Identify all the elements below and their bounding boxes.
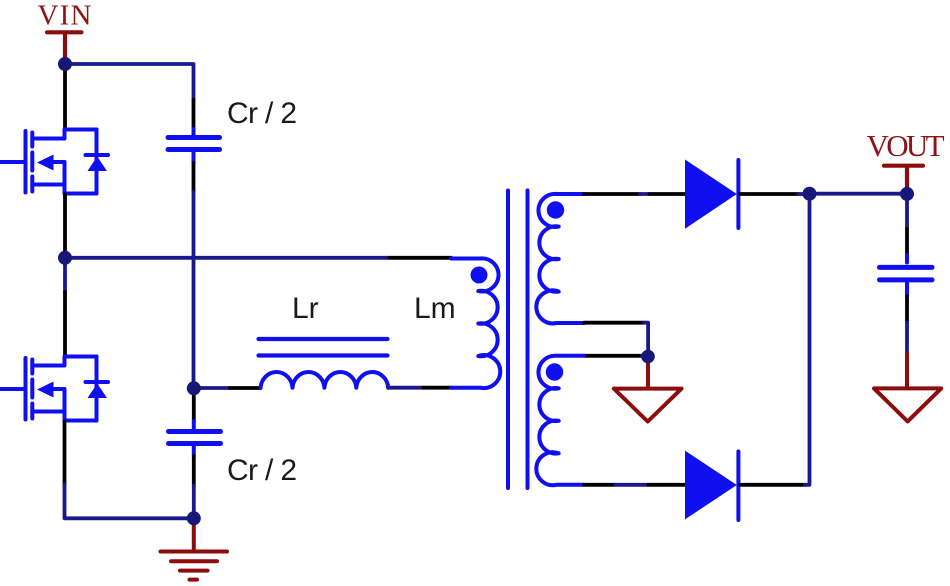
capacitor Cr1 (Cr/2 top) bbox=[168, 129, 220, 163]
ground center-tap stem bbox=[646, 360, 650, 388]
wire D2 cathode pin bbox=[740, 483, 805, 487]
wire D2 anode pin bbox=[648, 483, 685, 487]
transformer primary winding Lm bbox=[451, 258, 500, 388]
secondary bottom phase dot bbox=[546, 363, 563, 380]
wire D2 up to rectifier node bbox=[805, 194, 810, 485]
transformer secondary winding top bbox=[536, 194, 584, 323]
wire secondary bottom top pin bbox=[584, 354, 642, 358]
wire Q2 drain pin bbox=[63, 292, 67, 357]
node half-bridge midpoint bbox=[58, 251, 72, 265]
wire midpoint to primary bbox=[65, 256, 390, 260]
VOUT power rail bar bbox=[884, 164, 923, 168]
wire Cr1 to tank node bbox=[192, 192, 196, 388]
wire Cr2 to ground node bbox=[192, 486, 196, 519]
node VIN junction bbox=[58, 57, 72, 71]
transformer core lines bbox=[506, 191, 510, 489]
svg-text:VOUT: VOUT bbox=[867, 128, 945, 163]
wire Q2 source to ground node bbox=[65, 485, 194, 519]
transformer secondary winding bottom bbox=[536, 356, 584, 485]
secondary top phase dot bbox=[547, 201, 564, 218]
node rectifier junction bbox=[803, 187, 817, 201]
capacitor Cr2 (Cr/2 bottom) bbox=[169, 421, 221, 456]
VIN power rail bar bbox=[47, 30, 82, 34]
svg-text:Cr / 2: Cr / 2 bbox=[227, 97, 297, 130]
wire Cr2 top pin bbox=[192, 392, 196, 421]
wire secondary bottom pin to D2 bbox=[584, 483, 615, 487]
svg-text:Lr: Lr bbox=[292, 292, 319, 325]
ground center-tap triangle bbox=[614, 389, 682, 422]
wire Cr1 top pin bbox=[192, 100, 196, 129]
wire Q1 source pin bbox=[63, 195, 67, 253]
wire Cr1 bottom pin bbox=[192, 163, 196, 192]
ground output stem bbox=[905, 354, 909, 387]
wire to output node bbox=[799, 192, 810, 196]
wire tank node to Lr pin bbox=[194, 386, 230, 390]
inductor Lr core bars bbox=[259, 337, 388, 341]
wire Cr2 bottom pin bbox=[192, 456, 196, 486]
node ground junction bbox=[187, 511, 201, 525]
node center tap bbox=[641, 350, 655, 364]
wire secondary top bottom pin bbox=[584, 321, 644, 325]
svg-text:Lm: Lm bbox=[414, 292, 456, 325]
wire primary bottom pin bbox=[423, 386, 451, 390]
transistor Q2 (low-side MOSFET with body diode) bbox=[0, 357, 108, 421]
wire Lr left pin bbox=[230, 386, 261, 390]
wire Cout top pin bbox=[905, 229, 909, 255]
capacitor Cout bbox=[880, 255, 933, 296]
wire VOUT node down bbox=[905, 199, 909, 229]
wire into center tap node bbox=[642, 354, 648, 358]
wire Cout bottom pin bbox=[905, 296, 909, 322]
wire Lr to primary bbox=[388, 386, 423, 390]
wire Cout to ground bbox=[905, 323, 909, 354]
wire primary top pin bbox=[390, 256, 452, 260]
node VOUT junction bbox=[900, 187, 914, 201]
VIN power rail stem bbox=[63, 34, 67, 60]
VOUT power rail stem bbox=[905, 167, 909, 188]
wire Q2 drain bbox=[63, 264, 67, 292]
wire net segment bbox=[640, 192, 650, 196]
ground signal-ground stem bbox=[192, 518, 196, 549]
diode D2 bbox=[685, 451, 738, 520]
transistor Q1 (high-side MOSFET with body diode) bbox=[0, 130, 108, 194]
diode D1 bbox=[685, 160, 738, 229]
wire net segment bbox=[615, 483, 648, 487]
wire rectifier node to VOUT node bbox=[810, 192, 908, 196]
wire D1 anode pin bbox=[650, 192, 685, 196]
wire Q1 drain pin bbox=[63, 71, 67, 130]
svg-text:Cr / 2: Cr / 2 bbox=[227, 454, 297, 487]
primary phase dot bbox=[471, 267, 488, 284]
wire center-tap corner bbox=[644, 323, 648, 357]
node resonant tank junction bbox=[187, 381, 201, 395]
ground signal-ground bars bbox=[161, 552, 228, 580]
wire D1 cathode pin bbox=[740, 192, 799, 196]
wire Q2 source pin bbox=[63, 422, 67, 485]
ground output triangle bbox=[874, 388, 941, 421]
wire secondary top pin to D1 bbox=[584, 192, 640, 196]
inductor Lr winding bbox=[261, 372, 389, 388]
wire top rail from VIN node to Cr1 branch bbox=[65, 64, 194, 100]
svg-text:VIN: VIN bbox=[38, 0, 92, 32]
